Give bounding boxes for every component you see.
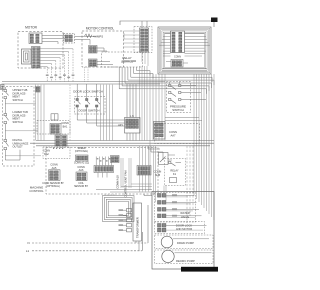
loads outer box [152, 192, 214, 270]
svg-text:AP1: AP1 [118, 124, 123, 127]
wires: machine control bottom drops to loops [104, 194, 106, 196]
tub switches dashed enclosure [3, 87, 35, 167]
wires: dashed verticals left of right-edge bundle [186, 146, 188, 223]
wire bundle: right edge verticals from power board to loads [193, 74, 195, 196]
wires: left verticals bus to mid bus [35, 85, 37, 141]
svg-text:RELAY: RELAY [170, 169, 179, 173]
pressure switch dashed enclosure [167, 82, 191, 113]
wires: pin row stubs up with pin number marks [95, 157, 97, 166]
pressure switch contact row 1 [169, 85, 171, 87]
pin number marks above BA2 label [53, 148, 54, 149]
wires: AP1 drops to mid bus [126, 133, 128, 141]
wires: CN1 fan-out left to loops [165, 32, 171, 34]
door switch contacts left [76, 99, 78, 101]
svg-text:MOTOR CONTROL: MOTOR CONTROL [86, 26, 115, 30]
svg-text:AA5: AA5 [52, 167, 57, 170]
motor control dashed enclosure [82, 31, 124, 67]
door lock pins [158, 224, 162, 228]
wire bus: upper pair full width [2, 81, 165, 83]
svg-text:WATER: WATER [180, 211, 189, 215]
wires: relay K1 feeds [151, 146, 163, 160]
connector grid mid right of machine control [137, 166, 151, 176]
lower tub displacement switch symbol [4, 114, 7, 116]
machine control dashed enclosure [46, 148, 158, 195]
wires: horizontals below vertical labels [121, 186, 152, 188]
wire: drain pump lead [173, 238, 209, 240]
wire bundle: mid-right verticals above pressure switch [149, 74, 151, 141]
recirc pump motor circle [162, 250, 174, 262]
connector JP4 dashed box [134, 27, 152, 53]
svg-text:(OPTIONAL): (OPTIONAL) [75, 150, 88, 153]
digital unbalance switch symbol [4, 140, 7, 142]
mark: dark blob top-right page edge [211, 18, 218, 23]
relay K1 coil box [170, 178, 177, 183]
connector BA4 twin pin blocks on bus [55, 135, 61, 146]
svg-text:CONN: CONN [169, 130, 177, 134]
wires: JP4 bottom drops [141, 52, 143, 62]
svg-text:BA2: BA2 [44, 153, 49, 156]
svg-text:TRANSFORMER: TRANSFORMER [136, 217, 140, 238]
wires: verticals beside vertical labels [120, 158, 122, 188]
wires: power board lower horizontals [162, 68, 207, 70]
power board outer box [158, 27, 211, 74]
svg-text:MOTOR: MOTOR [25, 26, 38, 30]
svg-text:CONTROL VENT FAN: CONTROL VENT FAN [124, 171, 128, 198]
svg-text:L N: L N [130, 116, 134, 118]
svg-text:(OPTIONAL): (OPTIONAL) [46, 185, 60, 188]
water valve dashed enclosure [155, 193, 196, 223]
wire loop bundle nested rectangles [103, 196, 135, 222]
svg-text:DRAIN PUMP: DRAIN PUMP [177, 241, 194, 245]
door lock switch dashed enclosure [75, 97, 106, 115]
wire: switch chain return [5, 150, 20, 160]
svg-text:SWITCH: SWITCH [13, 98, 23, 102]
svg-text:SWITCH: SWITCH [172, 108, 183, 112]
relay board dashed outline [102, 52, 143, 67]
wire: dashed vertical at door box left [69, 85, 71, 141]
pressure switch contact row 3 [169, 99, 171, 101]
wire: JP4 top feeds [141, 21, 143, 28]
connector speed pin row [76, 155, 89, 161]
motor connector P1 block [29, 33, 42, 44]
svg-text:VALVE: VALVE [181, 215, 189, 219]
svg-text:AA7: AA7 [170, 133, 176, 137]
door lock and motor dashed box [155, 222, 205, 234]
connector AA5 pin grid [49, 170, 61, 181]
transformer box [133, 203, 142, 241]
upper tub displacement switch symbol [4, 90, 7, 92]
wires: grid feeds from mid bus [139, 146, 141, 166]
wires: bottom-right feed pair [96, 189, 152, 191]
small pin block right of centre row [111, 156, 120, 163]
door switch contacts right [96, 99, 98, 101]
svg-text:SPEED: SPEED [77, 147, 85, 150]
power board nested wire loops [159, 28, 209, 72]
svg-text:4 AMPS: 4 AMPS [93, 34, 103, 38]
wires: door switch drops to AP1 [77, 107, 124, 120]
svg-text:CONN: CONN [174, 55, 181, 58]
motor stator nested box [22, 49, 32, 64]
wires: pressure contacts up to bus [169, 82, 171, 85]
connector AA7 dashed box [155, 124, 200, 144]
svg-text:N: N [27, 241, 29, 245]
connector block right of AP1 [154, 122, 166, 140]
svg-text:BA1: BA1 [63, 125, 68, 128]
fuse F1 squiggle and label 4 AMPS [85, 34, 93, 38]
wires: door switch verticals to bus [76, 84, 78, 99]
wire bundle: verticals below JP4 to mid bus [139, 66, 141, 141]
svg-text:SENSOR BT: SENSOR BT [74, 185, 88, 188]
motor connector P2 tall pin block [32, 47, 41, 69]
wire: P2 leads L-drop to bus (7 wires) [40, 48, 73, 50]
transformer winding pins column [127, 209, 132, 212]
relay K1 dashed box [165, 159, 186, 186]
motor assembly dashed enclosure [18, 32, 63, 69]
svg-text:AA6: AA6 [79, 169, 84, 172]
wires: pin row drops [97, 173, 99, 178]
wires: pin block leads right above AA7 [165, 117, 199, 119]
connector BA4 label dashed box [43, 147, 70, 159]
wires: transformer secondary drops [135, 241, 137, 243]
wires: center verticals to mid bus [100, 85, 102, 141]
wire bundle: seven L-routes from relay board to right side [119, 67, 206, 94]
wires: motor control bottom drops to bus [84, 67, 86, 82]
wire: N corner up to loads [147, 205, 149, 243]
mark: dark bar bottom-right page edge [181, 267, 218, 272]
pressure switch contact row 2 [169, 92, 171, 94]
relay pilot contact box [159, 153, 169, 165]
wire: L1 dashed line [32, 250, 142, 252]
wire: recirc pump lead [175, 252, 212, 254]
power board connector CN1 pin block [171, 31, 185, 53]
connector pin row centre of machine control [94, 166, 114, 173]
svg-text:CONN A10: CONN A10 [116, 175, 120, 189]
left edge connector marks [1, 85, 5, 90]
svg-text:CONTROL: CONTROL [29, 189, 44, 193]
wires: verticals into valve rows from above [153, 146, 155, 195]
connector BA1 pin block [50, 124, 61, 135]
drain pump motor circle [161, 236, 173, 248]
relay K1 contact [169, 162, 171, 164]
wire bus: mid triple [36, 140, 214, 142]
svg-text:K1: K1 [173, 172, 177, 176]
power board connector CN2 block [171, 60, 183, 68]
svg-text:AND MOTOR: AND MOTOR [176, 227, 192, 231]
connector AA6 grid [76, 172, 87, 181]
wire: CONN M1 to motor control box [75, 36, 97, 38]
mains connector AP1 grid [125, 118, 141, 134]
wires: CN1 fan-out right to loops [185, 32, 205, 34]
svg-text:DOOR LOCK SWITCH: DOOR LOCK SWITCH [73, 90, 103, 94]
wires: CN2 stubs [166, 61, 171, 63]
svg-text:RECIRC PUMP: RECIRC PUMP [176, 259, 195, 263]
wires: JP4 leads going left to motor control [124, 30, 140, 32]
wire: P1 pin leads to CONN M1 [42, 34, 65, 36]
svg-text:DOOR SWITCH: DOOR SWITCH [79, 109, 100, 113]
tiny label CONN AP3 above relay board [124, 60, 130, 62]
small connector block at switch box top right [36, 87, 41, 93]
wire: door lock leads [166, 224, 207, 226]
water valve solenoid rows with leads [158, 194, 162, 198]
svg-text:CONN: CONN [154, 170, 162, 174]
drain pump dashed box [155, 235, 214, 249]
tiny labels left of transformer pins [119, 209, 124, 211]
wire: top horizontal supply line [120, 21, 214, 27]
connector 2PIN upper in motor control [89, 46, 98, 54]
wires: switch outputs to right verticals [5, 103, 35, 105]
svg-text:DOOR LOCK: DOOR LOCK [176, 224, 192, 228]
wires: AP1 tops from bus [126, 84, 128, 118]
connector 2PIN lower in motor control [89, 59, 98, 67]
wire: neutral dashed line [32, 242, 148, 244]
door switch contacts middle [86, 99, 88, 101]
svg-text:CONN A2 (J2): CONN A2 (J2) [74, 162, 89, 165]
wire: L1 corner up [142, 232, 144, 251]
svg-text:OUTLET: OUTLET [13, 145, 24, 149]
2-pin inline connector CONN M1 [64, 34, 75, 44]
connector JP4 pin block [140, 28, 149, 52]
recirc pump dashed box [155, 250, 214, 264]
svg-text:L1: L1 [26, 249, 30, 253]
svg-text:SWITCH: SWITCH [13, 120, 23, 124]
small connector block above BA1 [51, 114, 58, 120]
wires: 2PIN connectors into relay board [97, 47, 104, 49]
connector CONN BA1 dashed box [37, 121, 70, 135]
wires: mid horizontals beside CONN label [163, 53, 171, 55]
wire: vertical alongside loads box left [149, 141, 151, 191]
